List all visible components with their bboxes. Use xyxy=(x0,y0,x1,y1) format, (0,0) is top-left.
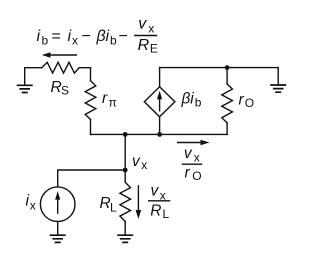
svg-text:i: i xyxy=(68,28,72,45)
svg-text:r: r xyxy=(239,91,245,108)
svg-text:β: β xyxy=(96,28,106,45)
svg-text:S: S xyxy=(61,84,69,98)
svg-text:b: b xyxy=(110,34,117,48)
svg-text:r: r xyxy=(102,90,108,107)
svg-text:r: r xyxy=(185,165,191,182)
svg-text:v: v xyxy=(138,16,147,33)
svg-text:R: R xyxy=(150,203,161,220)
svg-text:L: L xyxy=(163,207,170,221)
svg-text:x: x xyxy=(30,199,36,213)
svg-text:L: L xyxy=(110,200,117,214)
svg-text:π: π xyxy=(109,96,117,110)
svg-text:β: β xyxy=(181,91,191,108)
svg-text:−: − xyxy=(119,28,128,45)
svg-text:v: v xyxy=(151,183,160,200)
svg-text:=: = xyxy=(52,28,61,45)
svg-text:−: − xyxy=(82,28,91,45)
svg-text:v: v xyxy=(184,145,193,162)
svg-text:v: v xyxy=(132,153,141,170)
svg-text:b: b xyxy=(42,34,49,48)
svg-text:i: i xyxy=(190,91,194,108)
svg-text:i: i xyxy=(106,28,110,45)
svg-text:i: i xyxy=(37,28,41,45)
svg-text:x: x xyxy=(148,21,154,35)
svg-text:x: x xyxy=(141,158,147,172)
svg-text:O: O xyxy=(192,169,201,183)
svg-text:R: R xyxy=(138,37,150,54)
svg-text:x: x xyxy=(194,151,200,165)
svg-text:O: O xyxy=(245,96,254,110)
svg-text:x: x xyxy=(72,34,78,48)
svg-text:b: b xyxy=(195,96,202,110)
svg-text:E: E xyxy=(150,41,158,55)
